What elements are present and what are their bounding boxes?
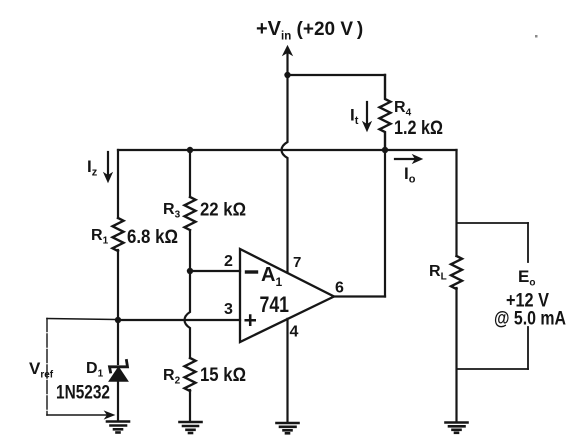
- wire R3 bottom to pin2 node: [189, 231, 191, 271]
- label R2: [163, 365, 246, 387]
- svg-text:15 kΩ: 15 kΩ: [200, 365, 246, 386]
- wire +Vin line down, hop over output bus, to op-amp pin 7: [282, 75, 288, 273]
- label It: [350, 106, 359, 128]
- label D1: [56, 360, 110, 404]
- wire Eo bracket right vertical upper segment: [527, 223, 529, 262]
- zener diode D1 cathode bar: [110, 361, 128, 373]
- label Eo: [494, 267, 566, 330]
- node junction dot +Vin / R4 top wire: [284, 72, 290, 78]
- resistor R2: [185, 358, 196, 391]
- svg-text:3: 3: [224, 301, 233, 318]
- wire Eo bracket right vertical lower segment: [527, 327, 529, 369]
- wire left branch down to R1: [117, 150, 119, 218]
- op-amp A1 triangle: [240, 249, 334, 342]
- svg-text:@ 5.0 mA: @ 5.0 mA: [494, 309, 566, 330]
- resistor RL: [451, 256, 462, 289]
- wire pin 2 to op-amp: [190, 270, 240, 272]
- wire R2 bottom to ground: [189, 390, 191, 421]
- svg-text:+: +: [244, 307, 257, 333]
- svg-text:1.2 kΩ: 1.2 kΩ: [394, 118, 443, 139]
- current arrow It: [366, 102, 368, 125]
- label Vref: [29, 359, 54, 381]
- wire zener to ground: [117, 381, 119, 421]
- label pin 7: [293, 254, 301, 271]
- label R3: [163, 199, 246, 221]
- zener diode D1 anode triangle: [110, 368, 128, 382]
- label pin 3: [224, 301, 233, 318]
- label Iz: [87, 157, 98, 179]
- label op-amp plus input: [244, 307, 257, 333]
- wire R3 branch from bus: [189, 150, 191, 197]
- label RL: [429, 263, 447, 283]
- label op-amp 741: [260, 292, 290, 317]
- label R1: [91, 227, 178, 248]
- wire RL branch from bus right end down: [455, 150, 457, 256]
- Vref bracket: top horizontal, left vertical, bottom horizontal with arrow: [47, 319, 115, 416]
- wire op-amp pin 4 down to ground: [286, 319, 288, 422]
- label R4: [394, 99, 443, 139]
- wire top horizontal to R4: [288, 74, 386, 76]
- svg-text:+Vin (+20 V ): +Vin (+20 V ): [256, 18, 363, 43]
- wire Eo bracket bottom: [457, 368, 529, 370]
- resistor R1: [113, 218, 124, 251]
- label pin 6: [335, 280, 344, 297]
- svg-text:6.8 kΩ: 6.8 kΩ: [127, 227, 178, 248]
- node +Vin supply label: [256, 18, 363, 43]
- ground under RL: [446, 423, 468, 433]
- svg-text:1N5232: 1N5232: [56, 383, 110, 404]
- label pin 4: [290, 324, 299, 341]
- svg-text:741: 741: [260, 292, 290, 317]
- wire output bus horizontal: [118, 149, 457, 151]
- svg-text:7: 7: [293, 254, 301, 271]
- wire R1 bottom to pin3 node: [117, 250, 119, 320]
- node junction dot R4 bottom / pin6 riser on bus: [382, 147, 388, 153]
- resistor R4: [380, 75, 391, 150]
- current arrow Iz: [107, 152, 109, 176]
- current arrow Io: [395, 158, 416, 160]
- wire pin6 riser up to bus: [384, 150, 386, 297]
- node junction dot R3 top on bus: [187, 147, 193, 153]
- label Io: [404, 164, 416, 186]
- svg-text:22 kΩ: 22 kΩ: [200, 199, 246, 220]
- wire RL bottom to ground: [455, 288, 457, 422]
- ground under R2: [180, 422, 202, 433]
- wire pin2 node down, hop over pin3 wire, to R2: [185, 271, 191, 358]
- node junction dot pin3 node: [115, 317, 121, 323]
- ground under zener D1: [107, 422, 129, 433]
- svg-text:2: 2: [224, 253, 233, 270]
- speck artifact top right: [535, 35, 538, 38]
- svg-text:4: 4: [290, 324, 299, 341]
- node junction dot pin2 node: [187, 268, 193, 274]
- svg-text:6: 6: [335, 280, 344, 297]
- wire +Vin vertical with up arrow: [286, 52, 288, 75]
- wire pin 3 to op-amp: [118, 319, 240, 321]
- ground under pin 4: [277, 423, 299, 433]
- label op-amp A1: [261, 264, 282, 289]
- wire Eo bracket top: [457, 222, 529, 224]
- wire pin 6 output to riser: [334, 295, 385, 297]
- label pin 2: [224, 253, 233, 270]
- resistor R3: [185, 197, 196, 230]
- wire zener branch down: [117, 320, 119, 364]
- label op-amp minus input: [247, 270, 257, 273]
